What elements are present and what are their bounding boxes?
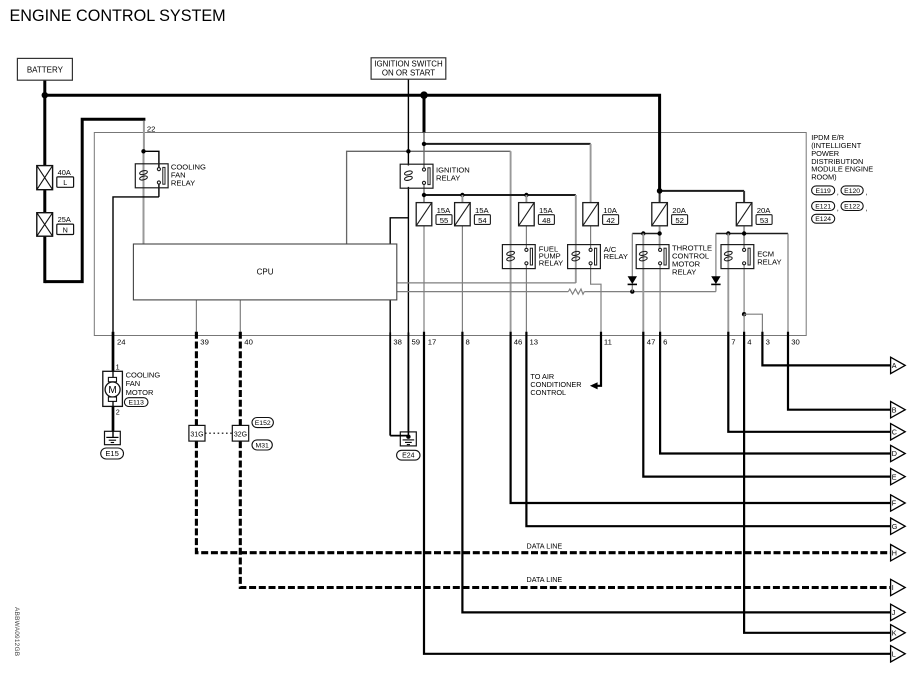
svg-text:B: B [892, 405, 897, 414]
svg-text:15A: 15A [475, 206, 490, 215]
svg-text:CPU: CPU [257, 268, 274, 277]
svg-text:C: C [892, 428, 897, 437]
svg-text:22: 22 [147, 125, 156, 134]
svg-text:E24: E24 [402, 453, 415, 460]
svg-text:E120: E120 [844, 188, 860, 195]
svg-text:BATTERY: BATTERY [27, 65, 64, 74]
svg-text:RELAY: RELAY [171, 178, 195, 187]
svg-text:20A: 20A [757, 206, 772, 215]
svg-text:E: E [892, 472, 897, 481]
svg-text:,: , [837, 188, 839, 197]
svg-text:,: , [865, 203, 867, 212]
svg-text:2: 2 [116, 407, 120, 416]
svg-text:59: 59 [412, 338, 421, 347]
svg-text:1: 1 [116, 363, 120, 372]
svg-text:42: 42 [606, 216, 615, 225]
svg-text:20A: 20A [672, 206, 687, 215]
svg-text:32G: 32G [234, 431, 247, 438]
svg-text:DATA LINE: DATA LINE [527, 575, 563, 584]
svg-text:E15: E15 [105, 449, 119, 458]
svg-text:RELAY: RELAY [604, 252, 628, 261]
svg-text:IGNITION SWITCH: IGNITION SWITCH [374, 60, 443, 69]
svg-text:6: 6 [663, 338, 667, 347]
svg-text:K: K [892, 629, 897, 638]
svg-text:L: L [892, 650, 896, 659]
svg-text:ON OR START: ON OR START [382, 69, 435, 78]
svg-text:F: F [892, 499, 897, 508]
svg-text:15A: 15A [539, 206, 554, 215]
svg-text:D: D [892, 449, 897, 458]
svg-text:E152: E152 [255, 420, 271, 427]
svg-text:N: N [63, 225, 68, 234]
svg-text:FAN: FAN [126, 379, 141, 388]
svg-text:53: 53 [760, 216, 769, 225]
svg-text:,: , [837, 203, 839, 212]
svg-text:E113: E113 [129, 400, 145, 407]
svg-text:M31: M31 [256, 442, 269, 449]
svg-text:ENGINE CONTROL SYSTEM: ENGINE CONTROL SYSTEM [10, 7, 226, 25]
svg-text:40: 40 [244, 338, 253, 347]
svg-text:15A: 15A [437, 206, 452, 215]
svg-text:39: 39 [200, 338, 209, 347]
svg-text:48: 48 [542, 216, 551, 225]
svg-text:MOTOR: MOTOR [126, 388, 154, 397]
svg-text:A: A [892, 361, 897, 370]
svg-text:7: 7 [731, 338, 735, 347]
svg-text:25A: 25A [58, 215, 71, 224]
svg-text:ROOM): ROOM) [811, 173, 836, 182]
svg-text:RELAY: RELAY [757, 257, 781, 266]
svg-text:8: 8 [466, 338, 470, 347]
svg-text:24: 24 [117, 338, 126, 347]
svg-text:30: 30 [791, 338, 800, 347]
svg-text:13: 13 [530, 338, 539, 347]
svg-text:J: J [892, 608, 896, 617]
svg-text:L: L [63, 178, 67, 187]
svg-text:4: 4 [747, 338, 752, 347]
svg-text:3: 3 [766, 338, 770, 347]
svg-text:E122: E122 [844, 203, 860, 210]
svg-text:H: H [892, 548, 897, 557]
svg-text:DATA LINE: DATA LINE [527, 541, 563, 550]
svg-text:46: 46 [514, 338, 523, 347]
svg-text:11: 11 [604, 338, 612, 347]
svg-text:55: 55 [440, 216, 449, 225]
svg-text:E121: E121 [815, 203, 831, 210]
svg-text:ABBWA0912GB: ABBWA0912GB [13, 607, 20, 656]
svg-text:,: , [865, 188, 867, 197]
svg-text:RELAY: RELAY [436, 174, 460, 183]
svg-text:RELAY: RELAY [539, 258, 563, 267]
svg-text:31G: 31G [190, 431, 203, 438]
svg-text:E119: E119 [815, 188, 831, 195]
svg-text:G: G [892, 522, 898, 531]
svg-text:RELAY: RELAY [672, 267, 696, 276]
svg-text:17: 17 [428, 338, 437, 347]
svg-text:10A: 10A [603, 206, 618, 215]
svg-text:CONTROL: CONTROL [530, 388, 566, 397]
svg-text:40A: 40A [58, 168, 71, 177]
svg-text:52: 52 [675, 216, 684, 225]
svg-text:COOLING: COOLING [126, 370, 161, 379]
svg-text:I: I [892, 583, 894, 592]
svg-text:38: 38 [393, 338, 402, 347]
svg-text:M: M [108, 385, 116, 396]
svg-text:54: 54 [478, 216, 487, 225]
svg-text:E124: E124 [815, 216, 831, 223]
svg-text:47: 47 [647, 338, 656, 347]
